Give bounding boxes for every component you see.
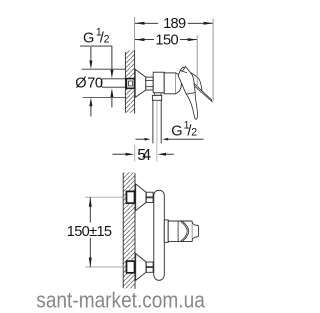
dim 150 right arrow bbox=[188, 38, 198, 41]
G 1/2 lower arrow pointing up at pipe bbox=[111, 96, 113, 107]
dim 54 line right arrow bbox=[165, 153, 174, 155]
dim 150 right extension line bbox=[196, 36, 198, 88]
outlet centerline bbox=[156, 101, 158, 162]
lever step bbox=[164, 220, 168, 242]
svg-text:150: 150 bbox=[155, 32, 178, 48]
dim 150+-15 top arrow bbox=[89, 197, 92, 207]
outlet pipe bbox=[152, 100, 154, 143]
svg-text:54: 54 bbox=[137, 147, 151, 164]
dim 54 line left arrow bbox=[112, 153, 126, 155]
dim 189 line bbox=[135, 22, 158, 24]
top union square bbox=[127, 191, 135, 203]
dim 189 right arrow bbox=[204, 22, 214, 25]
lever bar bbox=[168, 221, 192, 242]
escutcheon cone bbox=[135, 69, 146, 97]
wall hatching bbox=[123, 173, 135, 289]
dim 54 left extension line bbox=[134, 145, 136, 162]
cap dome bbox=[176, 73, 182, 94]
dia70 top arrow bbox=[90, 47, 92, 62]
top union nut facets bbox=[146, 192, 153, 197]
outlet stub bbox=[155, 93, 161, 95]
svg-text:Ø: Ø bbox=[75, 76, 86, 92]
lever bar inner line bbox=[177, 221, 179, 242]
mixer body bbox=[153, 72, 164, 93]
label G 1/2 right underline leader with arrow bbox=[168, 138, 204, 140]
wall face extension line for dims 189/150 bbox=[134, 17, 136, 50]
dim 150 left arrow bbox=[135, 38, 145, 41]
body capsule bbox=[154, 190, 165, 280]
wall face line bbox=[134, 173, 136, 289]
bottom union cone bbox=[136, 254, 146, 281]
svg-text:G: G bbox=[171, 123, 182, 139]
svg-text:150±15: 150±15 bbox=[67, 224, 112, 240]
svg-text:189: 189 bbox=[163, 16, 186, 32]
label G 1/2 top-left underline bbox=[80, 45, 112, 47]
label G 1/2 right text bbox=[171, 119, 197, 139]
bottom union nut facets bbox=[146, 262, 153, 267]
dia70 top extension line bbox=[82, 68, 127, 70]
wall fitting square inner bbox=[129, 81, 133, 86]
inlet pipe bbox=[102, 78, 126, 80]
svg-text:2: 2 bbox=[191, 126, 197, 138]
top union cone bbox=[136, 184, 146, 211]
lever blade band bbox=[194, 84, 212, 102]
G 1/2 right left-side arrow bbox=[136, 138, 145, 140]
svg-text:sant-market.com.ua: sant-market.com.ua bbox=[36, 287, 205, 312]
lever neck bbox=[178, 66, 195, 94]
dim 150+-15 vertical line bbox=[89, 197, 91, 222]
dia70 bottom arrow bbox=[90, 105, 92, 116]
dim 150+-15 bottom arrow bbox=[89, 258, 92, 268]
body second section bbox=[164, 73, 175, 94]
lever nub bbox=[192, 223, 198, 239]
inlet pipe end cap bbox=[101, 79, 102, 87]
wall left line bbox=[124, 52, 126, 113]
lever blade top edge connector bbox=[191, 73, 203, 91]
dim 189 left arrow bbox=[135, 22, 145, 25]
outlet nut bbox=[152, 95, 161, 100]
label G 1/2 top-left text bbox=[83, 27, 110, 47]
svg-text:70: 70 bbox=[87, 76, 103, 92]
wall hatching bbox=[125, 51, 134, 114]
union hex nut bbox=[146, 77, 153, 90]
dim 189 right extension line bbox=[212, 19, 214, 101]
G 1/2 leader down arrow bbox=[111, 46, 113, 71]
wall fitting square bbox=[126, 79, 134, 89]
lever neck inner facet lines bbox=[180, 68, 187, 73]
wall left line bbox=[122, 173, 124, 288]
svg-text:G: G bbox=[83, 31, 94, 47]
dia70 bottom extension line bbox=[83, 97, 127, 99]
wall face line bbox=[134, 50, 136, 114]
bottom union square bbox=[127, 261, 135, 273]
svg-text:2: 2 bbox=[104, 34, 110, 46]
dim 150+-15 top extension line bbox=[85, 196, 126, 198]
dim 150 line bbox=[135, 39, 154, 41]
lever tail bbox=[186, 93, 197, 120]
lever arcs bbox=[181, 221, 188, 241]
dim 150+-15 bottom extension line bbox=[85, 266, 126, 268]
